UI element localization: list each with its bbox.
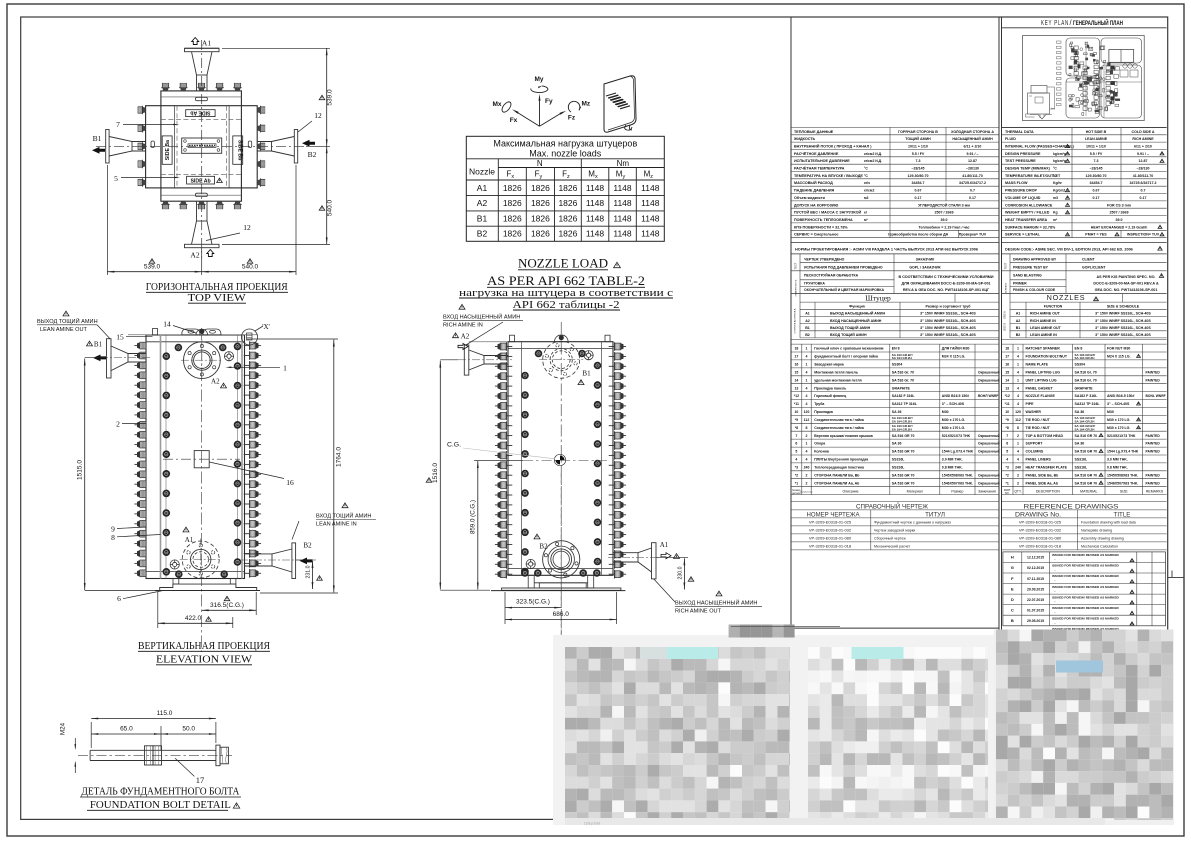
svg-text:*9: *9 <box>795 418 798 422</box>
svg-text:FUNCTION: FUNCTION <box>1044 305 1063 309</box>
foundation bolt: leader 17 <box>175 758 194 776</box>
svg-text:50.0: 50.0 <box>182 725 195 732</box>
svg-text:Максимальная нагрузка штуцер: Максимальная нагрузка штуцеров <box>493 139 637 149</box>
svg-text:кг/ч: кг/ч <box>864 181 870 185</box>
svg-text:M30: M30 <box>942 410 949 414</box>
svg-text:ИСПЫТАТЕЛЬНОЕ ДАВЛЕНИЕ: ИСПЫТАТЕЛЬНОЕ ДАВЛЕНИЕ <box>794 159 850 163</box>
svg-text:Верхняя крышка/ нижняя крышка: Верхняя крышка/ нижняя крышка <box>814 434 873 438</box>
right panel: russian panel bottom border <box>791 627 999 629</box>
svg-text:540.0: 540.0 <box>242 264 259 271</box>
foundation bolt: dimension 65.0 <box>160 726 162 750</box>
elevation view 1: top head plate gray line <box>128 334 258 336</box>
svg-text:859.0 (C.G.): 859.0 (C.G.) <box>470 500 477 534</box>
surface rows (russian): sandblasting primer finish <box>799 271 801 294</box>
svg-text:115.0: 115.0 <box>157 710 173 717</box>
elevation view 2: cross bolt top <box>584 351 593 360</box>
elevation view 1: detail X balloon <box>242 326 264 345</box>
svg-text:PRIMER: PRIMER <box>1013 281 1027 285</box>
top view: bottom stud bolts <box>161 201 169 209</box>
svg-text:G: G <box>1011 565 1014 570</box>
svg-text:Окрашенный: Окрашенный <box>978 378 999 382</box>
svg-text:СЕРВИС = Смертельное: СЕРВИС = Смертельное <box>794 233 838 237</box>
svg-text:FOUNDATION BOLT DETAIL: FOUNDATION BOLT DETAIL <box>90 800 231 811</box>
svg-text:ANSI B16.5 150#: ANSI B16.5 150# <box>1107 394 1134 398</box>
svg-text:SIDE Bb: SIDE Bb <box>237 140 243 160</box>
svg-text:6/11 + 2/10: 6/11 + 2/10 <box>1134 145 1152 149</box>
svg-text:8: 8 <box>111 533 115 542</box>
thermal data table (english) <box>1002 126 1167 128</box>
svg-text:МАССОВЫЙ РАСХОД: МАССОВЫЙ РАСХОД <box>794 181 833 185</box>
key plan: header box <box>1002 27 1167 29</box>
svg-text:4: 4 <box>806 450 808 454</box>
elevation view 2: center axis <box>560 322 562 660</box>
elevation view 1: center axis <box>201 328 203 652</box>
svg-text:15: 15 <box>116 332 124 341</box>
svg-text:DESIGN PRESSURE: DESIGN PRESSURE <box>1005 152 1041 156</box>
svg-text:ОКОНЧАТЕЛЬНЫЙ И ЦВЕТНАЯ МАРКИР: ОКОНЧАТЕЛЬНЫЙ И ЦВЕТНАЯ МАРКИРОВКА <box>804 288 884 292</box>
max nozzle loads table: outer box <box>466 136 664 241</box>
top view: bottom dimension 539.0 / 540.0 <box>106 165 108 275</box>
svg-text:2: 2 <box>1017 481 1019 485</box>
svg-text:ВХОД НАСЫЩЕННЫЙ АМИН: ВХОД НАСЫЩЕННЫЙ АМИН <box>443 313 520 321</box>
svg-text:65.0: 65.0 <box>120 725 133 732</box>
svg-text:SA 516 Gr. 70: SA 516 Gr. 70 <box>1075 371 1097 375</box>
svg-text:7: 7 <box>116 120 120 129</box>
svg-text:3" 150# WNRF SS316L, SCH-40S: 3" 150# WNRF SS316L, SCH-40S <box>1095 326 1151 330</box>
svg-text:9.91 / –: 9.91 / – <box>967 152 979 156</box>
svg-text:1826: 1826 <box>558 213 577 223</box>
svg-text:Количество: Количество <box>801 492 814 494</box>
svg-text:kg/cm²g: kg/cm²g <box>1053 159 1066 163</box>
svg-text:1546X507X63 THK.: 1546X507X63 THK. <box>942 481 973 485</box>
svg-text:34725.6/34717.2: 34725.6/34717.2 <box>959 181 986 185</box>
svg-text:422.0: 422.0 <box>185 615 202 622</box>
svg-text:7.3: 7.3 <box>916 159 921 163</box>
svg-text:1148: 1148 <box>641 183 660 193</box>
top view: label SIDE Ab rotated (top) <box>186 110 215 117</box>
svg-text:1826: 1826 <box>503 183 522 193</box>
svg-text:34454.7: 34454.7 <box>1090 181 1103 185</box>
elevation view 1: nozzle B1 (top left) <box>107 339 112 378</box>
foundation bolt: M24 size arrows <box>74 738 76 749</box>
svg-text:129.30/80.70: 129.30/80.70 <box>1086 174 1107 178</box>
svg-text:A2: A2 <box>1016 319 1021 323</box>
svg-text:29.09.2015: 29.09.2015 <box>1027 587 1044 591</box>
svg-text:ДЕТАЛЬ ФУНДАМЕНТНОГО БОЛТА: ДЕТАЛЬ ФУНДАМЕНТНОГО БОЛТА <box>81 787 239 798</box>
svg-text:ВЫХОД НАСЫЩЕННЫЙ АМИН: ВЫХОД НАСЫЩЕННЫЙ АМИН <box>830 312 885 316</box>
elevation view 2: body outline <box>508 342 613 576</box>
svg-text:5: 5 <box>795 450 797 454</box>
svg-text:Kg: Kg <box>1053 211 1058 215</box>
svg-text:240: 240 <box>804 466 810 470</box>
elevation view 1: cross bolt bottom <box>170 560 179 569</box>
svg-text:–: – <box>1054 579 1056 583</box>
svg-text:521X521X73 THK: 521X521X73 THK <box>1107 434 1136 438</box>
svg-text:3" 150# WNRF SS316L, SCH-40S: 3" 150# WNRF SS316L, SCH-40S <box>920 312 976 316</box>
svg-text:PAINTED: PAINTED <box>1146 371 1161 375</box>
svg-text:SIZE: SIZE <box>1120 490 1128 494</box>
svg-text:REV.A & GEA DOC. NO. PWT441810: REV.A & GEA DOC. NO. PWT4418106-SP-001 К… <box>903 288 990 292</box>
svg-text:Assembly drawing drawing: Assembly drawing drawing <box>1081 537 1124 541</box>
svg-text:0.7: 0.7 <box>1141 189 1146 193</box>
svg-text:2: 2 <box>806 434 808 438</box>
svg-text:539.0: 539.0 <box>327 89 334 106</box>
redaction mosaic: cyan patch center <box>852 647 904 659</box>
svg-text:1: 1 <box>1017 363 1019 367</box>
plate icon: bottom hook detail <box>625 125 632 130</box>
svg-text:Nameplate drawing: Nameplate drawing <box>1081 529 1112 533</box>
svg-text:Mz: Mz <box>582 101 591 108</box>
svg-text:HOT SIDE B: HOT SIDE B <box>1086 130 1107 134</box>
svg-text:Прокладка панель: Прокладка панель <box>814 386 846 390</box>
svg-text:ТОЩИЙ АМИН: ТОЩИЙ АМИН <box>905 137 931 141</box>
svg-text:Окрашенный: Окрашенный <box>978 450 999 454</box>
svg-text:SA 194 GR.2H: SA 194 GR.2H <box>892 420 912 424</box>
svg-text:1515.0: 1515.0 <box>77 460 84 480</box>
svg-text:B1: B1 <box>477 213 488 223</box>
svg-text:22.07.2015: 22.07.2015 <box>1027 598 1044 602</box>
svg-text:SUPPORT: SUPPORT <box>1026 442 1044 446</box>
svg-text:6: 6 <box>795 442 797 446</box>
svg-text:Окрашенный: Окрашенный <box>978 442 999 446</box>
elevation view 1: center lug with pin <box>196 329 208 335</box>
svg-text:ANSI B16.5 150#: ANSI B16.5 150# <box>942 394 969 398</box>
svg-text:E: E <box>1011 586 1014 591</box>
svg-text:SIDE B: SIDE B <box>1004 323 1007 331</box>
svg-text:13.8 p.6 dd: 13.8 p.6 dd <box>584 822 600 826</box>
svg-text:ТЕМПЕРАТУРА НА ВПУСКЕ / ВЫХОДЕ: ТЕМПЕРАТУРА НА ВПУСКЕ / ВЫХОДЕ <box>794 174 863 178</box>
svg-text:1: 1 <box>806 442 808 446</box>
svg-text:5.5 / FV: 5.5 / FV <box>1090 152 1103 156</box>
svg-text:1826: 1826 <box>531 198 550 208</box>
top view: right dimension 539.0 / 540.0 <box>222 47 330 49</box>
svg-text:INTERNAL FLOW (PASSES+CHANNEL): INTERNAL FLOW (PASSES+CHANNEL) <box>1005 145 1075 149</box>
svg-text:112: 112 <box>1015 418 1021 422</box>
svg-text:Замечания: Замечания <box>978 490 996 494</box>
top view: label SIDE Ab (bottom) <box>187 176 215 184</box>
svg-text:12: 12 <box>243 223 251 232</box>
svg-text:7.3: 7.3 <box>1094 159 1099 163</box>
elevation view 2: right tie rod studs <box>609 342 626 351</box>
svg-text:PAINTED: PAINTED <box>1146 378 1161 382</box>
svg-text:SIZE & SCHEDULE: SIZE & SCHEDULE <box>1107 305 1140 309</box>
svg-text:NOZZLE FLANGE: NOZZLE FLANGE <box>1026 394 1056 398</box>
svg-text:B1: B1 <box>805 326 810 330</box>
elevation view 1: center inspection square (item 16) <box>194 451 209 468</box>
svg-text:1516.0: 1516.0 <box>432 463 439 483</box>
svg-text:ISSUED FOR REVIEW/ REVISED AS: ISSUED FOR REVIEW/ REVISED AS MARKED <box>1052 553 1120 557</box>
svg-text:231.0: 231.0 <box>306 565 312 578</box>
svg-text:Соединительная тяга / гайка: Соединительная тяга / гайка <box>814 418 864 422</box>
top view: nozzle A2 (bottom) <box>185 244 220 247</box>
svg-text:16: 16 <box>794 363 798 367</box>
svg-text:Fz: Fz <box>568 115 576 122</box>
svg-text:GOPL/CLIENT: GOPL/CLIENT <box>1082 266 1106 270</box>
svg-text:СТОРОНА ПАНЕЛИ Aa, Ab: СТОРОНА ПАНЕЛИ Aa, Ab <box>814 481 859 485</box>
elevation view 2: rich amine out text (bottom right) <box>716 591 722 596</box>
svg-text:5: 5 <box>1006 450 1008 454</box>
svg-text:41.80/111.70: 41.80/111.70 <box>1133 174 1154 178</box>
svg-text:термообработка после сборки ДА: термообработка после сборки ДА <box>888 233 949 237</box>
top view: small slot tabs top and bottom <box>195 97 207 100</box>
svg-text:Прокладка: Прокладка <box>814 410 833 414</box>
redaction mosaic: cyan patch left <box>667 647 718 659</box>
svg-text:4: 4 <box>806 371 808 375</box>
svg-text:SS316L: SS316L <box>892 458 906 462</box>
svg-text:120: 120 <box>1015 410 1021 414</box>
svg-text:3" 150# WNRF SS316L, SCH-40S: 3" 150# WNRF SS316L, SCH-40S <box>1095 333 1151 337</box>
svg-text:DESCRIPTION: DESCRIPTION <box>1036 490 1060 494</box>
svg-text:0.8 MM THK.: 0.8 MM THK. <box>942 466 963 470</box>
svg-text:B2: B2 <box>477 229 488 239</box>
svg-text:FOR CS 3 mm: FOR CS 3 mm <box>1107 203 1131 207</box>
svg-text:Материал: Материал <box>907 490 923 494</box>
svg-text:KEY PLAN: KEY PLAN <box>1041 18 1069 27</box>
key plan: section bottom border <box>1002 126 1167 128</box>
svg-text:Гаечный ключ с храповым механи: Гаечный ключ с храповым механизмом <box>814 347 884 351</box>
svg-text:Mx: Mx <box>492 101 501 108</box>
svg-text:PAINTED: PAINTED <box>1146 442 1161 446</box>
svg-text:QTY.: QTY. <box>1014 490 1022 494</box>
svg-text:10: 10 <box>794 410 798 414</box>
svg-text:PAINTED: PAINTED <box>1146 473 1161 477</box>
svg-text:SA 516 GR 70: SA 516 GR 70 <box>1075 450 1098 454</box>
design code row (russian) <box>791 242 999 244</box>
elevation view 2: bottom dimension 686.0 <box>616 592 618 624</box>
svg-text:10/11 + 1/10: 10/11 + 1/10 <box>908 145 928 149</box>
svg-text:PANEL LINERS: PANEL LINERS <box>1026 458 1052 462</box>
svg-text:kg/cm²g: kg/cm²g <box>1053 152 1066 156</box>
svg-text:29.05.2015: 29.05.2015 <box>1027 619 1044 623</box>
svg-text:TIE ROD / NUT: TIE ROD / NUT <box>1026 426 1051 430</box>
svg-text:A2: A2 <box>477 198 488 208</box>
svg-text:16: 16 <box>1005 363 1009 367</box>
elevation view 2: dimension 859.0 (C.G.) <box>477 461 479 590</box>
svg-text:M30 x 170 LG.: M30 x 170 LG. <box>1107 426 1130 430</box>
svg-text:AS PER API 662 TABLE-2: AS PER API 662 TABLE-2 <box>487 274 645 288</box>
svg-text:Объем жидкости: Объем жидкости <box>794 196 826 200</box>
svg-text:ELEVATION VIEW: ELEVATION VIEW <box>156 655 252 666</box>
plate icon: corrugation hatching <box>606 93 620 100</box>
svg-text:PIPE: PIPE <box>1026 402 1035 406</box>
svg-text:ВЕРТИКАЛЬНАЯ ПРОЕКЦИЯ: ВЕРТИКАЛЬНАЯ ПРОЕКЦИЯ <box>138 641 270 652</box>
svg-text:ПОВЕРХНОСТЬ: ПОВЕРХНОСТЬ <box>796 279 798 296</box>
svg-text:0.17: 0.17 <box>915 196 922 200</box>
svg-text:VOLUME OF LIQUID: VOLUME OF LIQUID <box>1005 196 1041 200</box>
svg-text:°C: °C <box>1053 167 1057 171</box>
svg-text:6: 6 <box>117 594 121 603</box>
svg-text:18: 18 <box>794 347 798 351</box>
svg-text:EN 8: EN 8 <box>1075 347 1083 351</box>
svg-text:SS304: SS304 <box>892 363 903 367</box>
svg-text:A1: A1 <box>805 312 810 316</box>
svg-text:12.12.2015: 12.12.2015 <box>1027 556 1044 560</box>
svg-text:1546X507X63 THK.: 1546X507X63 THK. <box>1107 481 1138 485</box>
svg-text:4: 4 <box>1017 402 1019 406</box>
svg-text:SIDE Ba: SIDE Ba <box>165 140 171 160</box>
top view: right stud bolts <box>257 106 265 114</box>
svg-text:SERVICE = LETHAL: SERVICE = LETHAL <box>1005 233 1041 237</box>
svg-text:My: My <box>534 76 543 83</box>
svg-text:VP-3209-E0318-01-018: VP-3209-E0318-01-018 <box>809 544 852 549</box>
svg-text:SA 516 GR 70: SA 516 GR 70 <box>892 481 915 485</box>
svg-text:Проверка= TUV: Проверка= TUV <box>959 233 987 237</box>
svg-text:DOCC-E-3209-00-MA-SP-001 REV.A: DOCC-E-3209-00-MA-SP-001 REV.A & <box>1093 282 1159 286</box>
elevation view 2: dimension 230.0 near A1 <box>656 556 688 558</box>
svg-text:Окрашенный: Окрашенный <box>978 473 999 477</box>
svg-text:SIDE Ab: SIDE Ab <box>190 178 210 184</box>
svg-text:CORROSION ALLOWANCE: CORROSION ALLOWANCE <box>1005 203 1053 207</box>
svg-text:M24 X 115 LG.: M24 X 115 LG. <box>942 355 966 359</box>
svg-text:686.0: 686.0 <box>553 611 570 618</box>
svg-text:–28/130: –28/130 <box>1137 167 1150 171</box>
svg-text:ЖИДКОСТЬ: ЖИДКОСТЬ <box>793 137 816 141</box>
svg-text:SA 516 GR 70: SA 516 GR 70 <box>892 473 915 477</box>
svg-text:SS316L: SS316L <box>1075 466 1089 470</box>
svg-text:*8: *8 <box>1006 426 1009 430</box>
svg-text:*1: *1 <box>1006 481 1009 485</box>
svg-text:01.07.2015: 01.07.2015 <box>1027 608 1044 612</box>
svg-text:Fy: Fy <box>545 98 553 105</box>
svg-text:4: 4 <box>1017 450 1019 454</box>
svg-text:Труба: Труба <box>814 402 824 406</box>
svg-text:SA 516 GR 70: SA 516 GR 70 <box>1075 434 1098 438</box>
svg-text:RICH AMINE: RICH AMINE <box>1132 137 1154 141</box>
elevation view 2: top circle B1 (dashed) <box>543 341 580 378</box>
top view: nozzle B2 (right) <box>294 130 297 164</box>
svg-text:COLD SIDE A: COLD SIDE A <box>1131 130 1154 134</box>
svg-text:VP-3209-E0318-01-025: VP-3209-E0318-01-025 <box>809 520 852 525</box>
top view: nozzle B1 (left) <box>106 130 109 164</box>
svg-text:PRESSURE TEST BY: PRESSURE TEST BY <box>1013 266 1049 270</box>
elevation view 1: small tab (item 15 target) <box>153 329 158 336</box>
svg-text:A2: A2 <box>461 332 470 340</box>
elevation view 1: label B1 with warn <box>87 341 93 346</box>
svg-text:1148: 1148 <box>641 213 660 223</box>
svg-text:WEIGHT EMPTY / FILLED: WEIGHT EMPTY / FILLED <box>1005 211 1050 215</box>
svg-text:Заводская марка: Заводская марка <box>814 363 844 367</box>
svg-text:SA312 TP 316L: SA312 TP 316L <box>892 402 918 406</box>
nozzle schedule header NOZZLES (english) <box>1009 294 1011 303</box>
svg-text:PRESSURE DROP: PRESSURE DROP <box>1005 189 1038 193</box>
svg-text:ВХОД ТОЩИЙ АМИН: ВХОД ТОЩИЙ АМИН <box>316 512 371 520</box>
top view: nozzle label A2 with flow arrow <box>207 250 214 257</box>
svg-text:SS316L: SS316L <box>1075 458 1089 462</box>
svg-text:TITLE: TITLE <box>1114 512 1131 519</box>
redaction mosaic: light backdrop <box>553 635 1105 825</box>
svg-text:В СООТВЕТСТВИИ С ТЕХНИЧЕСКИМИ: В СООТВЕТСТВИИ С ТЕХНИЧЕСКИМИ УСЛОВИЯМИ <box>899 275 994 279</box>
svg-text:3" 150# WNRF SS316L, SCH-40S: 3" 150# WNRF SS316L, SCH-40S <box>1095 312 1151 316</box>
nozzle schedule columns (russian) <box>799 302 801 338</box>
svg-text:ПЕСКОСТРУЙНАЯ ОБРАБОТКА: ПЕСКОСТРУЙНАЯ ОБРАБОТКА <box>804 274 859 278</box>
svg-text:0.7: 0.7 <box>970 189 975 193</box>
svg-text:SS304: SS304 <box>1075 363 1086 367</box>
svg-text:M30 x 170 LG.: M30 x 170 LG. <box>1107 418 1130 422</box>
nozzle schedule columns (english) <box>1009 302 1011 338</box>
svg-text:ЧЕРТЕЖ УТВЕРЖДЕНО: ЧЕРТЕЖ УТВЕРЖДЕНО <box>804 257 845 261</box>
svg-text:PAINTED: PAINTED <box>1146 434 1161 438</box>
svg-text:39.0: 39.0 <box>941 218 948 222</box>
foundation bolt: dimension 115.0 <box>90 722 92 748</box>
elevation view 1: support base <box>160 584 257 590</box>
svg-text:ISSUED FOR REVIEW/ REVISED AS: ISSUED FOR REVIEW/ REVISED AS MARKED <box>1052 606 1120 610</box>
svg-text:–: – <box>1054 568 1056 572</box>
svg-text:ISSUED FOR REVIEW/ REVISED AS: ISSUED FOR REVIEW/ REVISED AS MARKED <box>1052 574 1120 578</box>
svg-text:SA 516 Gr. 70: SA 516 Gr. 70 <box>892 371 914 375</box>
svg-text:СПРАВОЧНЫЙ ЧЕРТЕЖ: СПРАВОЧНЫЙ ЧЕРТЕЖ <box>856 501 929 510</box>
elevation view 2: label B2 <box>534 534 540 539</box>
elevation view 1: cross bolt top <box>224 352 233 361</box>
svg-text:ГЕНЕРАЛЬНЫЙ ПЛАН: ГЕНЕРАЛЬНЫЙ ПЛАН <box>1073 18 1123 27</box>
svg-text:1: 1 <box>1017 347 1019 351</box>
svg-text:PAINTED: PAINTED <box>1146 450 1161 454</box>
elevation view 2: cross bolt bottom <box>526 559 535 568</box>
svg-text:7: 7 <box>795 434 797 438</box>
svg-text:CLIENT: CLIENT <box>1082 257 1096 261</box>
axes diagram: Fy arrow <box>539 97 541 126</box>
elevation view 2: top and bottom row dots <box>535 350 543 358</box>
elevation view 2: top side tabs <box>510 335 515 342</box>
svg-text:ТЕПЛОВЫЕ ДАННЫЕ: ТЕПЛОВЫЕ ДАННЫЕ <box>794 130 834 134</box>
svg-text:1826: 1826 <box>531 213 550 223</box>
svg-text:1148: 1148 <box>586 213 605 223</box>
svg-text:Монтажная петля панель: Монтажная петля панель <box>814 371 858 375</box>
svg-text:ВЫХОД ТОЩИЙ АМИН: ВЫХОД ТОЩИЙ АМИН <box>830 326 871 330</box>
elevation view 1: left bolt dot column <box>163 352 171 360</box>
elevation view 2: bottom circle B2 (solid flange) <box>543 541 580 578</box>
svg-text:SA 516 Gr. 70: SA 516 Gr. 70 <box>892 378 914 382</box>
svg-text:1148: 1148 <box>613 213 632 223</box>
svg-text:4: 4 <box>1017 394 1019 398</box>
svg-text:4: 4 <box>1017 458 1019 462</box>
plate icon: isometric heat exchanger plate <box>604 76 636 132</box>
svg-text:ISSUED FOR REVIEW/ REVISED AS: ISSUED FOR REVIEW/ REVISED AS MARKED <box>1052 585 1120 589</box>
svg-text:B1: B1 <box>1016 326 1021 330</box>
svg-text:RICH AMINE OUT: RICH AMINE OUT <box>1030 312 1061 316</box>
svg-text:1544 Lg.X73.4 THK: 1544 Lg.X73.4 THK <box>1107 450 1139 454</box>
svg-text:17: 17 <box>196 775 205 785</box>
svg-text:СТОРОНА ПАНЕЛИ Ba, Bb: СТОРОНА ПАНЕЛИ Ba, Bb <box>814 473 859 477</box>
svg-text:B2: B2 <box>303 542 312 550</box>
top view: inner panel lines <box>174 106 176 188</box>
svg-text:1826: 1826 <box>531 229 550 239</box>
svg-text:LEAN AMINE OUT: LEAN AMINE OUT <box>40 327 88 333</box>
svg-text:1826: 1826 <box>531 183 550 193</box>
svg-text:*3: *3 <box>1006 466 1009 470</box>
svg-text:Nm: Nm <box>617 159 630 168</box>
svg-text:ХОЛОДНАЯ СТОРОНА А: ХОЛОДНАЯ СТОРОНА А <box>951 130 994 134</box>
svg-text:*3: *3 <box>795 466 798 470</box>
svg-text:REFERENCE DRAWINGS: REFERENCE DRAWINGS <box>1024 503 1120 510</box>
svg-text:ДЛЯ ОКРАШИВАНИЯ DOCC-E-3209-00: ДЛЯ ОКРАШИВАНИЯ DOCC-E-3209-00-MA-SP-001 <box>901 282 990 286</box>
svg-text:SIDE Ab: SIDE Ab <box>190 110 210 116</box>
svg-text:ISSUED FOR REVIEW/ REVISED AS: ISSUED FOR REVIEW/ REVISED AS MARKED <box>1052 616 1120 620</box>
svg-text:9.91 / –: 9.91 / – <box>1137 152 1149 156</box>
bill of materials table (russian) <box>791 343 999 345</box>
svg-text:Фундаментный чертеж с данными: Фундаментный чертеж с данными о нагрузка… <box>874 521 951 525</box>
svg-text:A1: A1 <box>1016 312 1021 316</box>
svg-text:HEAT TRANSFER PLATE: HEAT TRANSFER PLATE <box>1026 466 1068 470</box>
svg-text:NO.: NO. <box>1005 491 1010 495</box>
svg-text:1545X508X63 THK.: 1545X508X63 THK. <box>942 473 973 477</box>
svg-text:RICH AMINE IN: RICH AMINE IN <box>1030 319 1056 323</box>
svg-text:нагрузка на штуцера в соот: нагрузка на штуцера в соответствии с <box>459 288 673 299</box>
svg-text:3" 150# WNRF SS316L, SCH-40S: 3" 150# WNRF SS316L, SCH-40S <box>920 333 976 337</box>
svg-text:НАСЫЩЕННЫЙ АМИН: НАСЫЩЕННЫЙ АМИН <box>952 137 993 141</box>
svg-text:*2: *2 <box>1006 473 1009 477</box>
svg-text:TOP & BOTTOM HEAD: TOP & BOTTOM HEAD <box>1026 434 1064 438</box>
svg-text:SA312 TP 316L: SA312 TP 316L <box>1075 402 1101 406</box>
